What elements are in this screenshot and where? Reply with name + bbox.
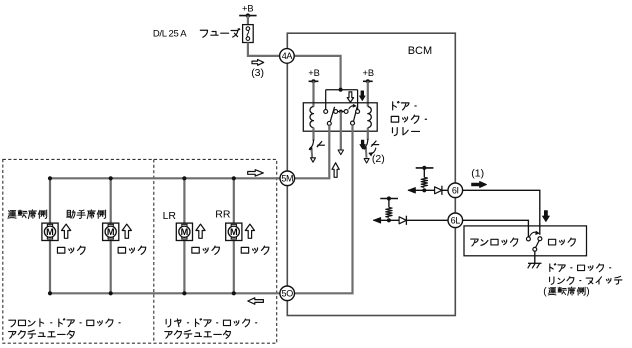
svg-text:+B: +B xyxy=(308,68,320,78)
svg-text:(1): (1) xyxy=(471,167,484,179)
svg-text:5O: 5O xyxy=(281,289,293,299)
svg-text:4A: 4A xyxy=(282,51,293,61)
svg-text:M: M xyxy=(230,227,238,237)
svg-text:+B: +B xyxy=(363,68,375,78)
svg-text:LR: LR xyxy=(163,210,177,222)
svg-text:): ) xyxy=(586,287,589,298)
svg-text:BCM: BCM xyxy=(408,45,432,57)
svg-text:M: M xyxy=(181,227,189,237)
svg-text:M: M xyxy=(46,227,54,237)
svg-text:6I: 6I xyxy=(452,186,459,196)
svg-text:+B: +B xyxy=(242,3,254,13)
svg-text:6L: 6L xyxy=(451,216,461,226)
svg-text:(3): (3) xyxy=(251,67,264,79)
svg-text:(: ( xyxy=(543,287,547,298)
svg-text:5M: 5M xyxy=(281,174,293,184)
svg-text:RR: RR xyxy=(215,208,231,220)
svg-text:M: M xyxy=(107,227,115,237)
svg-text:D/L 25 A: D/L 25 A xyxy=(153,28,187,39)
svg-text:(2): (2) xyxy=(372,153,385,165)
